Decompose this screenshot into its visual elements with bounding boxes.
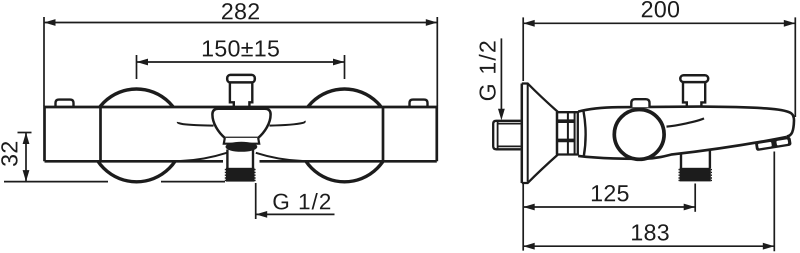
- lower right swoosh: [256, 153, 303, 161]
- escutcheon bell rim: [527, 85, 529, 182]
- dim 32 text: [1, 142, 17, 166]
- dim 150 left extension: [136, 55, 138, 79]
- dim 150 right arrow: [333, 59, 345, 66]
- body outline side: [578, 107, 794, 159]
- dim 200 left extension: [522, 17, 524, 81]
- baseline construction line left segment: [4, 181, 108, 183]
- dim 150 text: [203, 40, 279, 56]
- G 1/2 leader front vertical: [255, 183, 257, 219]
- spout cup flange: [224, 138, 259, 144]
- dim 282 right extension: [436, 17, 438, 106]
- dim 125 right arrow: [684, 204, 696, 211]
- dim 32 top tick: [18, 132, 32, 134]
- right knob circle: [298, 89, 391, 182]
- upper right swoosh: [270, 121, 305, 126]
- wall nipple inner face: [497, 122, 499, 149]
- G 1/2 side leader: [500, 38, 502, 110]
- diverter knob cap side: [680, 75, 708, 82]
- dim 200 text: [642, 1, 679, 17]
- thread teeth side band: [679, 170, 713, 181]
- right knob flat chord: [382, 107, 385, 161]
- dim 125 line: [523, 206, 695, 208]
- right top tab: [410, 100, 428, 107]
- dim 32 vertical line: [25, 133, 27, 182]
- aerator tab: [755, 136, 792, 151]
- diverter knob cap front: [227, 75, 255, 83]
- dim 200 line: [523, 22, 795, 24]
- dim 200 left arrow: [523, 20, 535, 27]
- dim 183 text: [632, 224, 669, 240]
- hex nut facet line 1: [567, 112, 569, 154]
- body bar outline: [45, 107, 437, 161]
- dim 150 left arrow: [137, 59, 149, 66]
- spout pipe sides: [227, 150, 253, 169]
- wall nipple inner bottom line: [498, 145, 521, 147]
- dim 125 extension: [694, 184, 696, 212]
- diverter knob body front: [230, 82, 252, 106]
- dim 183 extension: [773, 152, 775, 252]
- left top tab: [56, 100, 74, 107]
- dim 150 right extension: [344, 55, 346, 79]
- thread teeth front band: [225, 170, 256, 181]
- spout pipe white fill: [227, 150, 255, 182]
- upper left swoosh: [178, 122, 214, 126]
- body shoulder curve: [667, 118, 705, 126]
- hex nut groove top: [558, 119, 575, 123]
- spout pipe thread band: [226, 168, 255, 182]
- dim 282 text: [222, 3, 259, 19]
- dim 282 line: [44, 22, 437, 24]
- hex nut groove bottom: [558, 139, 575, 143]
- dim 125 text: [592, 185, 629, 201]
- G 1/2 side text: [479, 41, 496, 100]
- spout joint ring: [226, 142, 257, 151]
- dim 125 left arrow: [523, 204, 535, 211]
- escutcheon bell cone top: [522, 84, 559, 113]
- hex nut: [557, 112, 578, 154]
- dim 282 left arrow: [44, 19, 56, 26]
- wall nipple inner top line: [498, 123, 521, 125]
- escutcheon bell cone bottom: [522, 154, 559, 183]
- diverter knob body side: [683, 82, 705, 106]
- G 1/2 leader front horizontal: [256, 213, 335, 215]
- dim 200 right extension: [794, 17, 796, 117]
- dim 183 lower left extension: [522, 183, 524, 251]
- dim 200 right arrow: [784, 20, 796, 27]
- body end cap arc: [584, 111, 586, 156]
- dim 32 bottom arrow: [23, 170, 30, 182]
- baseline construction line center segment: [161, 181, 225, 183]
- G 1/2 side arrow: [498, 109, 505, 121]
- outlet pipe side edges: [681, 149, 710, 168]
- escutcheon bell right face: [556, 112, 559, 155]
- outlet pipe side thread band: [680, 168, 711, 182]
- knob top bump: [631, 99, 649, 107]
- dim 183 right arrow: [763, 243, 775, 250]
- dim 32 top arrow: [23, 133, 30, 145]
- dim 150 line: [137, 61, 345, 63]
- left knob circle: [90, 89, 183, 182]
- temperature knob circle side: [614, 109, 664, 159]
- left knob flat chord: [99, 107, 102, 161]
- wall nipple: [493, 121, 520, 150]
- hex nut facet line 2: [574, 112, 576, 154]
- dim 282 left extension: [43, 17, 45, 106]
- dim 183 line: [523, 245, 774, 247]
- lower left swoosh: [181, 153, 227, 161]
- G 1/2 front text: [273, 193, 330, 210]
- escutcheon bell left face: [521, 84, 524, 184]
- spout cup: [212, 109, 270, 138]
- dim 183 left arrow: [523, 243, 535, 250]
- dim 282 right arrow: [426, 19, 438, 26]
- G 1/2 leader front arrow: [256, 211, 268, 218]
- bar interior white mask: [45, 107, 437, 161]
